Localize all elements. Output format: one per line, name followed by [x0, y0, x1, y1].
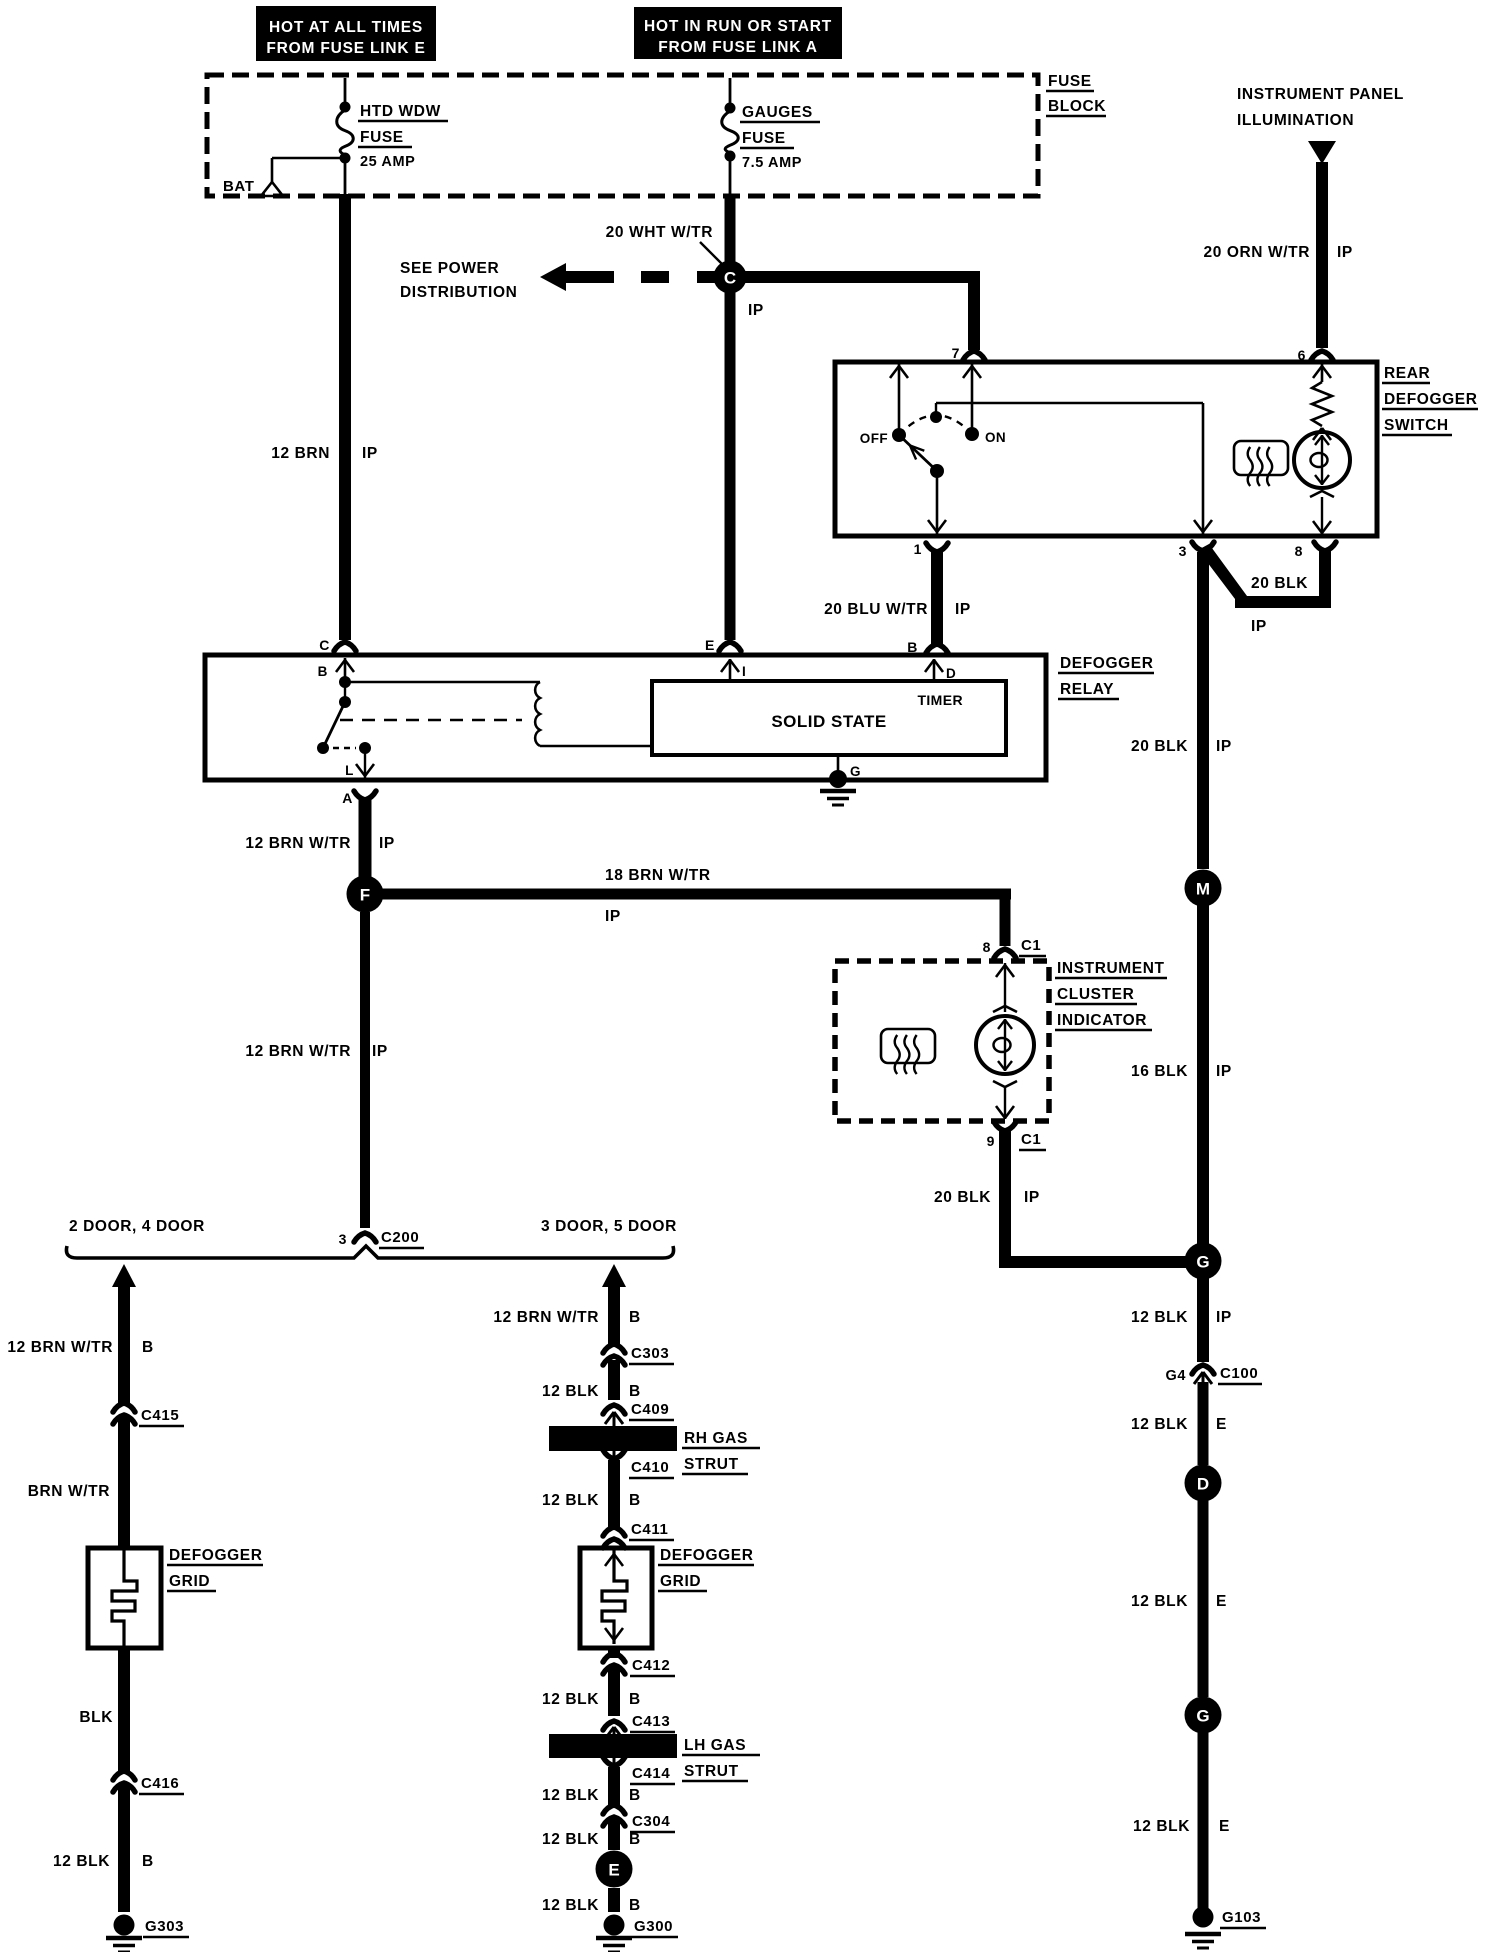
svg-text:SEE POWER: SEE POWER	[400, 260, 499, 277]
svg-text:12 BLK: 12 BLK	[542, 1383, 599, 1400]
wire 12 BLK E middle	[1131, 1496, 1227, 1697]
svg-text:E: E	[1216, 1593, 1227, 1610]
svg-text:B: B	[629, 1691, 641, 1708]
svg-text:12 BRN: 12 BRN	[271, 445, 330, 462]
svg-text:G: G	[1196, 1253, 1209, 1272]
connector C412	[603, 1648, 675, 1676]
instrument panel illumination source	[1237, 86, 1404, 164]
wire 12 BLK B below LH strut	[542, 1767, 641, 1806]
svg-text:9: 9	[987, 1133, 995, 1149]
svg-text:12 BRN W/TR: 12 BRN W/TR	[7, 1339, 113, 1356]
relay blade and contacts	[317, 702, 374, 778]
instrument cluster indicator box (dashed)	[835, 961, 1049, 1121]
GAUGES fuse 7.5 AMP	[722, 78, 820, 196]
relay mechanical link (dashed)	[340, 719, 522, 722]
connector C304	[603, 1805, 675, 1832]
splice node G lower	[1185, 1697, 1222, 1734]
relay pin A connector	[342, 790, 376, 806]
svg-text:12 BLK: 12 BLK	[542, 1787, 599, 1804]
svg-text:D: D	[1197, 1475, 1209, 1494]
wire BRN W/TR	[28, 1418, 130, 1548]
svg-text:C413: C413	[632, 1713, 670, 1730]
splice node C	[714, 261, 747, 294]
svg-text:E: E	[705, 637, 715, 653]
svg-text:IP: IP	[1251, 618, 1267, 635]
svg-text:IP: IP	[1216, 738, 1232, 755]
LH gas strut	[549, 1734, 760, 1781]
svg-text:12 BLK: 12 BLK	[1131, 1416, 1188, 1433]
connector C303	[603, 1344, 674, 1365]
switch blade	[899, 435, 946, 534]
switch illumination resistor	[1312, 364, 1332, 426]
svg-text:RH GAS: RH GAS	[684, 1430, 748, 1447]
wire 20 BLK IP to splice M	[1131, 552, 1232, 869]
ground G103	[1185, 1907, 1266, 1949]
relay pin E connector	[705, 637, 741, 653]
wire 12 BLK B mid right	[542, 1460, 641, 1528]
label 3 DOOR 5 DOOR	[541, 1218, 677, 1235]
svg-text:12 BRN W/TR: 12 BRN W/TR	[245, 1043, 351, 1060]
svg-text:FROM FUSE LINK A: FROM FUSE LINK A	[658, 39, 817, 56]
BAT terminal	[223, 158, 345, 196]
svg-text:INDICATOR: INDICATOR	[1057, 1012, 1147, 1029]
svg-text:E: E	[608, 1861, 619, 1880]
svg-text:G: G	[850, 764, 861, 779]
switch ON contact	[965, 427, 1006, 445]
see power distribution arrow (dashed)	[400, 260, 716, 301]
switch pin 3 connector	[1179, 542, 1214, 559]
switch wiper pivot and dashed arc	[899, 403, 972, 435]
defogger relay label	[1058, 655, 1154, 699]
svg-text:CLUSTER: CLUSTER	[1057, 986, 1134, 1003]
svg-text:M: M	[1196, 880, 1210, 899]
splice node D	[1185, 1465, 1222, 1502]
svg-text:IP: IP	[748, 302, 764, 319]
rear defogger switch box	[835, 362, 1377, 536]
svg-text:C409: C409	[631, 1401, 669, 1418]
wire 12 BRN IP	[271, 194, 378, 640]
svg-text:12 BLK: 12 BLK	[1131, 1309, 1188, 1326]
defogger relay box	[205, 655, 1046, 780]
power label: HOT AT ALL TIMES FROM FUSE LINK E	[256, 6, 436, 61]
svg-text:LH GAS: LH GAS	[684, 1737, 746, 1754]
switch pin 1 connector	[914, 541, 948, 557]
svg-text:RELAY: RELAY	[1060, 681, 1114, 698]
svg-text:BLK: BLK	[79, 1709, 113, 1726]
svg-text:HOT IN RUN OR START: HOT IN RUN OR START	[644, 18, 832, 35]
splice node M	[1185, 870, 1222, 907]
svg-text:DEFOGGER: DEFOGGER	[1060, 655, 1154, 672]
svg-text:20 WHT W/TR: 20 WHT W/TR	[606, 224, 713, 241]
svg-text:C410: C410	[631, 1459, 669, 1476]
svg-text:IP: IP	[1024, 1189, 1040, 1206]
svg-text:20 BLU W/TR: 20 BLU W/TR	[824, 601, 928, 618]
svg-text:12 BLK: 12 BLK	[542, 1691, 599, 1708]
svg-text:C200: C200	[381, 1229, 419, 1246]
svg-text:G303: G303	[145, 1918, 184, 1935]
instrument cluster indicator label	[1055, 960, 1167, 1030]
svg-text:INSTRUMENT: INSTRUMENT	[1057, 960, 1165, 977]
relay coil	[345, 682, 652, 746]
svg-text:20 ORN W/TR: 20 ORN W/TR	[1204, 244, 1311, 261]
svg-text:C1: C1	[1021, 1131, 1041, 1148]
svg-text:3: 3	[1179, 543, 1187, 559]
svg-text:GRID: GRID	[169, 1573, 210, 1590]
svg-text:STRUT: STRUT	[684, 1456, 739, 1473]
svg-text:D: D	[946, 666, 956, 681]
svg-text:20 BLK: 20 BLK	[934, 1189, 991, 1206]
svg-text:7: 7	[952, 345, 960, 361]
cluster pin 9 connector C1	[987, 1122, 1046, 1150]
svg-text:18 BRN W/TR: 18 BRN W/TR	[605, 867, 711, 884]
switch defogger icon	[1234, 441, 1288, 486]
connector C414	[603, 1757, 675, 1784]
splice node F	[347, 876, 384, 913]
svg-text:7.5 AMP: 7.5 AMP	[742, 155, 802, 171]
connector C411	[603, 1521, 674, 1548]
svg-text:E: E	[1219, 1818, 1230, 1835]
svg-text:8: 8	[983, 939, 991, 955]
svg-text:F: F	[360, 886, 370, 905]
svg-text:C412: C412	[632, 1657, 670, 1674]
svg-text:20 BLK: 20 BLK	[1251, 575, 1308, 592]
fuse block label	[1046, 73, 1106, 116]
cluster indicator lamp	[976, 963, 1034, 1119]
wire 12 BLK IP	[1131, 1274, 1232, 1362]
svg-text:FUSE: FUSE	[742, 130, 786, 147]
svg-text:G4: G4	[1165, 1368, 1186, 1384]
switch pin 6 connector	[1298, 162, 1333, 363]
connector C200 pin 3	[339, 1229, 424, 1248]
svg-text:STRUT: STRUT	[684, 1763, 739, 1780]
svg-text:BAT: BAT	[223, 178, 255, 195]
wire 20 BLK IP from pin 8	[1198, 544, 1331, 635]
svg-text:B: B	[629, 1383, 641, 1400]
wire 16 BLK IP	[1131, 900, 1232, 1250]
defogger grid label right	[658, 1547, 754, 1591]
svg-text:REAR: REAR	[1384, 365, 1430, 382]
svg-text:E: E	[1216, 1416, 1227, 1433]
svg-text:12 BLK: 12 BLK	[1131, 1593, 1188, 1610]
switch OFF contact	[860, 428, 906, 446]
wire 20 BLK IP from pin 9 to splice G	[934, 1128, 1190, 1268]
svg-text:IP: IP	[955, 601, 971, 618]
svg-text:IP: IP	[1216, 1309, 1232, 1326]
label 2 DOOR 4 DOOR	[69, 1218, 205, 1235]
svg-text:GAUGES: GAUGES	[742, 104, 813, 121]
svg-text:IP: IP	[1216, 1063, 1232, 1080]
switch pin 8 connector	[1295, 542, 1336, 559]
svg-text:25 AMP: 25 AMP	[360, 154, 415, 170]
svg-text:C416: C416	[141, 1775, 179, 1792]
svg-text:B: B	[629, 1787, 641, 1804]
switch contact feed arrows	[890, 364, 981, 435]
svg-text:B: B	[142, 1853, 154, 1870]
svg-text:DEFOGGER: DEFOGGER	[660, 1547, 754, 1564]
wire 12 BRN W/TR B left branch	[7, 1264, 153, 1404]
svg-text:HTD WDW: HTD WDW	[360, 103, 441, 120]
connector C416	[113, 1771, 184, 1794]
svg-text:C414: C414	[632, 1765, 670, 1782]
svg-text:I: I	[742, 664, 746, 679]
svg-text:SWITCH: SWITCH	[1384, 417, 1449, 434]
svg-text:B: B	[629, 1492, 641, 1509]
svg-text:OFF: OFF	[860, 431, 888, 446]
connector C410	[603, 1450, 674, 1478]
svg-text:SOLID STATE: SOLID STATE	[771, 712, 886, 731]
relay pin C connector	[319, 637, 356, 653]
wire 12 BLK B above G300	[542, 1888, 641, 1914]
defogger grid (3/5 door)	[580, 1548, 652, 1648]
svg-text:C304: C304	[632, 1813, 670, 1830]
defogger grid label left	[167, 1547, 263, 1591]
svg-text:B: B	[142, 1339, 154, 1356]
wire 12 BLK B upper right	[542, 1360, 641, 1400]
svg-text:12 BLK: 12 BLK	[1133, 1818, 1190, 1835]
wire 12 BLK E lower	[1133, 1728, 1230, 1912]
wire 20 ORN W/TR IP	[1204, 162, 1353, 330]
svg-text:DISTRIBUTION: DISTRIBUTION	[400, 284, 517, 301]
svg-text:12 BRN W/TR: 12 BRN W/TR	[493, 1309, 599, 1326]
branch bracket	[66, 1246, 673, 1258]
wire 12 BLK E upper	[1131, 1382, 1227, 1465]
svg-text:DEFOGGER: DEFOGGER	[1384, 391, 1478, 408]
relay ground pin G	[820, 755, 861, 805]
ground G300	[596, 1915, 678, 1952]
wire 18 BRN W/TR IP	[377, 867, 1011, 946]
wire 12 BLK B above splice E	[542, 1820, 641, 1850]
svg-text:B: B	[629, 1309, 641, 1326]
connector C413	[603, 1713, 675, 1739]
svg-text:IP: IP	[605, 908, 621, 925]
ground G303	[106, 1915, 189, 1952]
svg-text:B: B	[318, 664, 328, 679]
svg-text:1: 1	[914, 541, 922, 557]
wire BLK	[79, 1648, 130, 1772]
svg-text:C303: C303	[631, 1345, 669, 1362]
wire 12 BLK B below grid	[542, 1668, 641, 1716]
svg-text:FROM FUSE LINK E: FROM FUSE LINK E	[266, 40, 425, 57]
fuse block (dashed boundary)	[207, 75, 1038, 196]
svg-text:C100: C100	[1220, 1365, 1258, 1382]
svg-text:B: B	[629, 1897, 641, 1914]
svg-text:ILLUMINATION: ILLUMINATION	[1237, 112, 1354, 129]
switch internal wire to pin 3	[936, 403, 1212, 534]
splice node E	[596, 1851, 633, 1888]
svg-text:IP: IP	[372, 1043, 388, 1060]
svg-text:3 DOOR, 5 DOOR: 3 DOOR, 5 DOOR	[541, 1218, 677, 1235]
svg-text:BLOCK: BLOCK	[1048, 98, 1106, 115]
wire 12 BRN W/TR IP below splice F	[245, 912, 388, 1228]
svg-text:FUSE: FUSE	[360, 129, 404, 146]
svg-text:C1: C1	[1021, 937, 1041, 954]
splice node G	[1185, 1243, 1222, 1280]
svg-text:G300: G300	[634, 1918, 673, 1935]
connector C100 grommet G4	[1165, 1365, 1262, 1384]
wire 20 BLU W/TR IP	[824, 549, 971, 646]
svg-text:IP: IP	[379, 835, 395, 852]
relay armature contact B	[318, 658, 354, 708]
wire 12 BLK B left	[53, 1786, 154, 1912]
rear defogger switch label	[1382, 365, 1478, 435]
svg-text:G: G	[1196, 1707, 1209, 1726]
wire 20 WHT W/TR	[606, 194, 764, 640]
svg-text:BRN W/TR: BRN W/TR	[28, 1483, 110, 1500]
wire 12 BRN W/TR B right branch	[493, 1264, 640, 1346]
svg-text:FUSE: FUSE	[1048, 73, 1092, 90]
svg-text:3: 3	[339, 1231, 347, 1247]
svg-text:DEFOGGER: DEFOGGER	[169, 1547, 263, 1564]
svg-text:IP: IP	[362, 445, 378, 462]
svg-text:20 BLK: 20 BLK	[1131, 738, 1188, 755]
svg-text:16 BLK: 16 BLK	[1131, 1063, 1188, 1080]
relay pin I arrow	[721, 659, 746, 681]
RH gas strut	[549, 1426, 760, 1474]
svg-text:HOT AT ALL TIMES: HOT AT ALL TIMES	[269, 19, 423, 36]
svg-text:12 BLK: 12 BLK	[542, 1492, 599, 1509]
svg-text:A: A	[342, 790, 353, 806]
cluster defogger icon	[881, 1029, 935, 1074]
svg-text:ON: ON	[985, 430, 1006, 445]
cluster pin 8 connector C1	[983, 937, 1046, 958]
svg-text:TIMER: TIMER	[917, 692, 963, 708]
svg-text:12 BLK: 12 BLK	[542, 1897, 599, 1914]
svg-text:8: 8	[1295, 543, 1303, 559]
svg-text:12 BLK: 12 BLK	[53, 1853, 110, 1870]
relay pin D arrow	[925, 659, 956, 681]
defogger grid (2/4 door)	[88, 1548, 161, 1648]
svg-text:GRID: GRID	[660, 1573, 701, 1590]
svg-text:C: C	[724, 269, 736, 288]
svg-text:IP: IP	[1337, 244, 1353, 261]
HTD WDW fuse 25 AMP	[337, 78, 448, 196]
solid state timer box	[652, 681, 1006, 755]
connector C409	[603, 1401, 674, 1426]
svg-text:12 BLK: 12 BLK	[542, 1831, 599, 1848]
svg-text:12 BRN W/TR: 12 BRN W/TR	[245, 835, 351, 852]
svg-text:C415: C415	[141, 1407, 179, 1424]
svg-text:G103: G103	[1222, 1909, 1261, 1926]
switch indicator lamp	[1294, 428, 1350, 534]
svg-text:2 DOOR, 4 DOOR: 2 DOOR, 4 DOOR	[69, 1218, 205, 1235]
wire 12 BRN W/TR IP to splice F	[245, 797, 395, 880]
relay pin B connector	[907, 639, 948, 655]
switch pin 7 connector	[952, 345, 985, 361]
wire from node C to switch pin 7	[742, 271, 980, 350]
power label: HOT IN RUN OR START FROM FUSE LINK A	[634, 7, 842, 59]
svg-text:C411: C411	[631, 1521, 668, 1538]
svg-text:C: C	[319, 637, 330, 653]
svg-text:INSTRUMENT PANEL: INSTRUMENT PANEL	[1237, 86, 1404, 103]
svg-text:B: B	[629, 1831, 641, 1848]
svg-text:L: L	[345, 763, 354, 778]
connector C415	[113, 1403, 184, 1426]
